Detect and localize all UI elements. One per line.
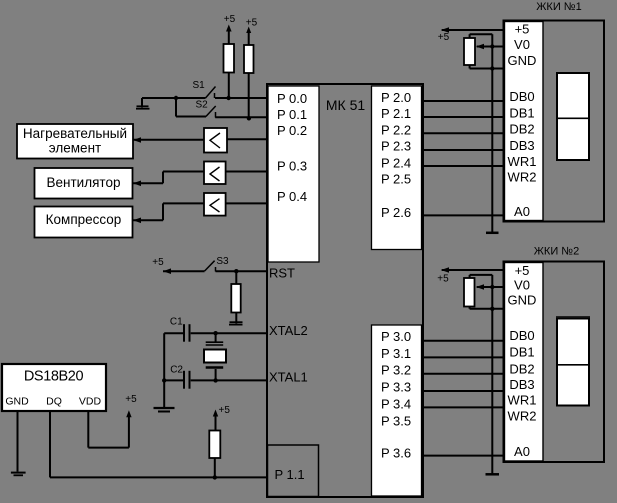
svg-text:P 3.2: P 3.2 [381,363,411,378]
svg-text:GND: GND [5,395,29,407]
svg-text:P 2.1: P 2.1 [381,106,411,121]
svg-text:P 0.1: P 0.1 [277,107,307,122]
svg-text:A0: A0 [514,444,530,459]
svg-text:DB1: DB1 [509,345,534,360]
svg-text:XTAL2: XTAL2 [269,323,308,338]
svg-text:+5: +5 [224,14,236,25]
svg-text:P 0.0: P 0.0 [277,91,307,106]
svg-text:WR2: WR2 [508,409,537,424]
svg-text:+5: +5 [152,257,164,268]
svg-text:+5: +5 [219,405,231,416]
svg-text:A0: A0 [514,204,530,219]
svg-text:P 3.0: P 3.0 [381,329,411,344]
svg-text:элемент: элемент [49,140,101,155]
svg-text:+5: +5 [515,263,530,278]
svg-text:WR1: WR1 [508,154,537,169]
svg-text:P 3.6: P 3.6 [381,446,411,461]
svg-text:DB0: DB0 [509,89,534,104]
svg-text:P 3.3: P 3.3 [381,380,411,395]
svg-text:DB1: DB1 [509,105,534,120]
svg-text:P 2.3: P 2.3 [381,139,411,154]
svg-text:DQ: DQ [46,395,62,407]
svg-text:WR1: WR1 [508,393,537,408]
svg-text:P 0.3: P 0.3 [277,159,307,174]
svg-text:V0: V0 [514,278,530,293]
svg-text:S2: S2 [196,100,209,111]
svg-text:Компрессор: Компрессор [46,212,122,227]
svg-text:DS18B20: DS18B20 [24,369,84,385]
svg-text:DB2: DB2 [509,122,534,137]
svg-text:P 3.5: P 3.5 [381,414,411,429]
svg-text:+5: +5 [515,22,530,37]
svg-text:C1: C1 [170,316,183,327]
svg-text:GND: GND [508,53,537,68]
svg-text:+5: +5 [438,32,450,43]
svg-text:DB3: DB3 [509,138,534,153]
svg-text:P 2.6: P 2.6 [381,205,411,220]
svg-text:+5: +5 [125,394,137,405]
svg-text:S1: S1 [193,80,206,91]
svg-text:ЖКИ №1: ЖКИ №1 [536,1,581,13]
svg-text:МК 51: МК 51 [326,97,365,113]
svg-text:+5: +5 [437,274,449,285]
svg-text:XTAL1: XTAL1 [269,370,308,385]
svg-text:DB2: DB2 [509,362,534,377]
svg-text:VDD: VDD [79,395,102,407]
svg-text:S3: S3 [216,256,229,267]
svg-text:ЖКИ №2: ЖКИ №2 [534,246,579,258]
svg-text:RST: RST [269,266,295,281]
svg-text:+5: +5 [246,18,258,29]
svg-text:GND: GND [508,293,537,308]
svg-text:P 3.1: P 3.1 [381,346,411,361]
svg-text:WR2: WR2 [508,170,537,185]
svg-text:P 2.5: P 2.5 [381,172,411,187]
svg-text:C2: C2 [170,364,183,375]
svg-text:Вентилятор: Вентилятор [47,175,121,190]
svg-text:P 2.0: P 2.0 [381,90,411,105]
svg-text:P 0.2: P 0.2 [277,123,307,138]
svg-text:P 1.1: P 1.1 [275,467,305,482]
svg-text:P 2.2: P 2.2 [381,122,411,137]
svg-text:P 0.4: P 0.4 [277,189,307,204]
svg-text:DB3: DB3 [509,377,534,392]
svg-text:P 2.4: P 2.4 [381,156,411,171]
svg-text:V0: V0 [514,37,530,52]
svg-text:Нагревательный: Нагревательный [23,126,127,141]
svg-text:P 3.4: P 3.4 [381,397,411,412]
svg-text:DB0: DB0 [509,328,534,343]
